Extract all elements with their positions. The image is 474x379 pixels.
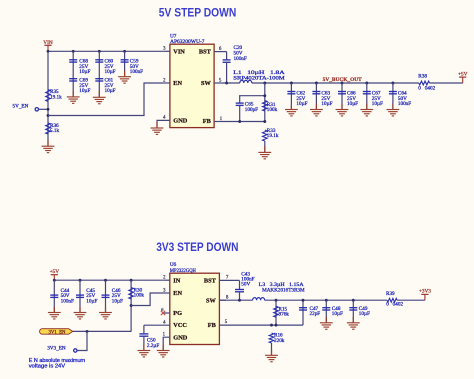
pin 5 SW stub [214,78,222,83]
harness label 3V1_EN [40,329,73,336]
svg-text:VIN: VIN [173,48,185,55]
power port +3V3 [419,288,431,300]
svg-text:3V3 STEP DOWN: 3V3 STEP DOWN [156,241,238,254]
wire C62 column [290,83,292,110]
wire C68 column [72,51,74,97]
capacitor C62 [287,91,307,108]
svg-text:19.1k: 19.1k [50,95,62,101]
resistor R30 [129,287,145,299]
svg-text:100pF: 100pF [245,107,258,113]
ground under C61 [93,91,106,103]
wire C46 column [105,280,107,312]
ground under C45 [74,307,87,319]
wire SW rail bottom right [265,299,387,301]
node VIN-rail junction C59 [123,50,126,53]
svg-text:22pF: 22pF [310,311,321,317]
power port VIN [43,40,53,51]
svg-text:5.1k: 5.1k [50,128,59,134]
pin 7 BST stub [219,276,239,281]
wire C63 column [315,83,317,110]
svg-text:100nF: 100nF [130,69,143,75]
node VIN-rail junction C60 [98,50,101,53]
power port +5V bottom [50,269,60,280]
wire C60 column [98,51,100,97]
resistor R38 [418,74,435,92]
title 5V STEP DOWN [159,7,237,20]
wire C47 column [302,300,304,325]
svg-text:0 0402: 0 0402 [418,86,435,92]
wire divider vertical R31 [264,83,266,122]
capacitor C60 [95,59,115,76]
svg-text:10µF: 10µF [79,69,90,75]
wire C49 column [352,300,354,323]
capacitor C65 [236,102,258,113]
svg-text:GND: GND [173,334,187,341]
capacitor C50 [139,334,159,349]
svg-text:10µF: 10µF [347,101,358,107]
wire FB line bottom [219,320,303,325]
wire SW rail left [220,82,239,84]
svg-text:10µF: 10µF [372,101,383,107]
wire R16 to ground [271,343,273,355]
svg-text:10µF: 10µF [79,88,90,94]
ground under C62 [285,104,298,116]
svg-text:FB: FB [208,322,217,329]
ground at U7 pin 4 [151,122,164,134]
node rail junction C44 [53,279,56,282]
svg-text:100nF: 100nF [398,101,411,107]
svg-text:220k: 220k [274,338,285,344]
wire R35 column [47,51,49,146]
ground under C44 [48,307,61,319]
svg-text:+3V3: +3V3 [419,288,431,294]
wire C59 column [124,51,126,76]
power port +5V [458,71,468,83]
inductor L3 [253,282,305,300]
wire SW rail right [252,82,419,84]
capacitor C69 [69,78,90,95]
svg-text:10µF: 10µF [321,101,332,107]
wire C65 bottom [239,105,241,121]
node rail junction R30 [130,279,133,282]
node SW junction C20 [225,82,228,85]
node FB junction R15 [275,324,278,327]
resistor R36 [46,123,60,134]
wire VCC to C50 [143,325,145,334]
capacitor C63 [312,91,332,108]
svg-text:AP63200WU-7: AP63200WU-7 [170,39,205,45]
wire BST to C20 [226,52,228,60]
node VIN-rail junction at R35 column [47,50,50,53]
svg-text:SRP4020TA-100M: SRP4020TA-100M [233,75,285,81]
pin 6 BST stub [214,47,227,52]
svg-text:976k: 976k [279,312,290,318]
node 3V3_EN junction [86,330,89,333]
ground under C46 [99,307,112,319]
wire +5V rail bottom [54,279,164,281]
capacitor C46 [102,288,123,305]
svg-text:5V_EN: 5V_EN [13,104,29,110]
wire BST to C43 [239,280,241,289]
svg-text:VCC: VCC [173,322,187,329]
svg-text:10µF: 10µF [359,311,370,317]
wire R38 to +5V [430,82,463,84]
svg-text:0 0402: 0 0402 [386,302,403,308]
node SW junction R15 [275,299,278,302]
ground under C67 [360,104,373,116]
ground under C63 [310,104,323,116]
node FB junction R16 [270,324,273,327]
port 3V3_EN [47,331,87,352]
op-amp U7 AP63200WU-7 body [170,33,214,127]
svg-text:EN: EN [173,80,182,87]
svg-text:BST: BST [199,48,212,55]
node SW rail junction C66 [341,82,344,85]
node SW rail junction C64 [391,82,394,85]
svg-text:R38: R38 [418,74,427,80]
svg-text:MP2322GQH: MP2322GQH [170,268,196,274]
svg-text:10µF: 10µF [112,299,123,305]
capacitor C49 [349,306,370,317]
pin 1 GND stub [163,333,170,351]
wire C50 to ground [143,336,145,350]
wire VIN rail [48,50,164,52]
ground under C59 [118,71,131,83]
wire R39 to +3V3 [397,299,425,301]
node FB junction R31 [263,120,266,123]
node SW junction C43 [238,299,241,302]
svg-text:3V1_EN: 3V1_EN [48,331,66,336]
node R31 top tee [263,94,266,97]
wire C64 column [392,83,394,110]
pin 8 SW stub [219,296,229,301]
svg-text:2.2µF: 2.2µF [147,343,159,349]
pin 4 GND stub [157,116,170,128]
resistor R39 [386,291,403,307]
svg-text:IN: IN [173,278,180,285]
svg-text:R39: R39 [386,291,395,297]
wire R33 to ground [264,141,266,152]
pin 4 VCC stub [144,321,170,326]
wire C67 column [366,83,368,110]
node SW rail junction C67 [365,82,368,85]
wire 3V1_EN to R30 column [73,330,131,332]
pin 6 PG stub no-connect [161,307,170,315]
node SW junction C47 [302,299,305,302]
pin 3 EN stub [163,288,170,293]
title 3V3 STEP DOWN [156,241,238,254]
capacitor C61 [95,78,115,95]
wire 5V_EN to EN pin [48,83,164,116]
port 5V_EN [13,104,49,111]
capacitor C44 [50,288,74,305]
svg-text:100k: 100k [267,107,278,113]
ground under R36 [42,140,55,152]
ground at U6 pin 1 [157,345,170,357]
svg-text:EN: EN [173,290,182,297]
svg-text:10µF: 10µF [105,88,116,94]
svg-text:+5V: +5V [458,71,468,77]
pin 2 IN stub [163,276,170,281]
capacitor C66 [338,91,358,108]
wire C45 column [79,280,81,312]
wire C66 column [341,83,343,110]
capacitor C59 [121,59,144,76]
svg-text:19.1k: 19.1k [267,133,279,139]
svg-text:MAKK2016T3R3M: MAKK2016T3R3M [262,288,305,294]
wire C65 top [240,96,265,103]
ground under C66 [336,104,349,116]
ground under R16 [265,349,278,361]
svg-text:3V3_EN: 3V3_EN [47,346,66,352]
ground under C49 [347,317,360,329]
node SW rail junction C62 [290,82,293,85]
node FB junction C65 [238,120,241,123]
pin 2 EN stub [163,78,170,83]
op-amp U6 MP2322GQH body [170,262,220,344]
wire R30 column [130,280,132,332]
ground under C69 [67,91,80,103]
wire SW rail bottom left [219,299,252,301]
svg-text:GND: GND [173,117,187,124]
wire C44 column [53,280,55,312]
svg-text:BST: BST [204,278,217,285]
node R30 bottom junction [130,304,133,307]
svg-text:10µF: 10µF [105,69,116,75]
pin 1 FB stub [214,117,223,122]
node SW junction divider [263,82,266,85]
resistor R16 [269,333,285,344]
capacitor C68 [69,59,90,76]
wire R30 to EN pin [131,293,164,306]
pin 3 VIN stub [163,47,170,52]
node VIN-rail junction C68 [72,50,75,53]
capacitor C67 [363,91,383,108]
capacitor C20 [223,45,247,62]
svg-text:10µF: 10µF [86,299,97,305]
ground under C64 [387,104,400,116]
svg-text:5V STEP DOWN: 5V STEP DOWN [159,7,237,20]
node 5V_EN junction [47,108,50,111]
svg-text:100nF: 100nF [61,299,74,305]
svg-text:PG: PG [173,310,182,317]
wire FB line [220,121,264,123]
svg-text:100k: 100k [134,293,145,299]
svg-text:SW: SW [206,297,217,304]
resistor R35 [46,89,62,101]
svg-text:50V: 50V [241,282,250,288]
node SW rail junction C63 [315,82,318,85]
capacitor C47 [299,306,320,317]
svg-text:100nF: 100nF [234,56,247,62]
wire R15 column [275,300,277,325]
capacitor C64 [389,91,411,108]
svg-text:FB: FB [203,118,212,125]
ground under C50 [138,345,151,357]
net label 5V_BUCK_OUT [323,77,362,83]
wire C43 to SW rail [239,292,241,300]
svg-text:voltage is 24V: voltage is 24V [29,364,66,370]
note text line 1 [29,358,85,364]
node EN branch junction [47,114,50,117]
resistor R31 [263,101,278,114]
capacitor C43 [235,271,255,292]
ground under C48 [320,317,333,329]
svg-text:10µF: 10µF [296,101,307,107]
wire C48 column [325,300,327,323]
wire C20 to SW rail [226,62,228,83]
node rail junction C46 [104,279,107,282]
note text line 2 [29,364,66,370]
resistor R33 [263,128,279,141]
svg-text:10µF: 10µF [332,311,343,317]
capacitor C45 [76,288,97,305]
node SW junction C49 [352,299,355,302]
ground under R33 [258,146,271,158]
capacitor C48 [322,306,343,317]
resistor R15 [274,306,290,317]
svg-text:SW: SW [201,80,212,87]
node rail junction C45 [79,279,82,282]
node SW junction C48 [325,299,328,302]
inductor L1 [233,70,285,83]
